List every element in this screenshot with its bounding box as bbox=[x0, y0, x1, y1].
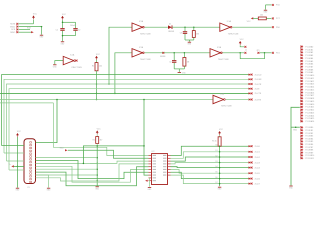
svg-text:P1.22/A22: P1.22/A22 bbox=[305, 109, 314, 112]
wire 25-D5 route bbox=[171, 170, 250, 174]
capacitor C3 bbox=[183, 31, 187, 34]
svg-text:C1: C1 bbox=[56, 29, 58, 31]
junction R5 bbox=[219, 156, 221, 158]
svg-text:VCC: VCC bbox=[62, 14, 67, 16]
pin PD0 bbox=[272, 26, 274, 28]
svg-text:R1: R1 bbox=[92, 66, 94, 68]
pin arrow bottom-left bbox=[11, 165, 14, 167]
svg-text:25-D1: 25-D1 bbox=[255, 152, 260, 154]
junction VCC stem bbox=[17, 166, 19, 168]
svg-text:P2.06/B6: P2.06/B6 bbox=[305, 144, 313, 146]
op-amp IC1E inverter bbox=[210, 46, 229, 61]
svg-text:VCC: VCC bbox=[97, 128, 102, 130]
pin x 25-D0 bbox=[251, 145, 253, 147]
wire VCC net riser bbox=[33, 20, 35, 24]
junction R1-W3 bbox=[96, 83, 98, 85]
wire R6 to link bbox=[183, 66, 185, 69]
pin x 25-D1 bbox=[251, 151, 253, 153]
pin arrow MISO bbox=[31, 31, 34, 33]
ground IC1F input bbox=[53, 65, 58, 69]
svg-text:25-D3: 25-D3 bbox=[255, 162, 260, 164]
junction R1-W6 bbox=[96, 99, 98, 101]
wire IC1E out to jumper bbox=[223, 52, 245, 54]
svg-text:VCC: VCC bbox=[219, 129, 224, 131]
connector SV1 pin 4 bbox=[16, 31, 18, 33]
svg-text:100nF: 100nF bbox=[70, 25, 76, 27]
svg-text:74HCT14N: 74HCT14N bbox=[140, 59, 151, 61]
pin x 25-D7 bbox=[251, 183, 253, 185]
svg-text:P1.00/A0: P1.00/A0 bbox=[305, 45, 313, 48]
wire RXD route bbox=[68, 150, 149, 158]
svg-text:V+: V+ bbox=[9, 164, 11, 166]
wire down to C4 bbox=[173, 53, 175, 60]
junction jumper bypass bbox=[239, 52, 241, 54]
wire V4 into X1 bbox=[9, 169, 24, 171]
wire VCC to jumper pin bbox=[240, 45, 244, 47]
svg-text:P2.03/B3: P2.03/B3 bbox=[305, 136, 313, 138]
junction R2 route A bbox=[96, 145, 98, 147]
svg-text:D6: D6 bbox=[215, 177, 217, 179]
capacitor C2 bbox=[73, 28, 77, 31]
pin 25-CTS bbox=[249, 92, 252, 94]
wire bus W6 left bbox=[0, 99, 213, 101]
pin 25-RI bbox=[249, 88, 252, 90]
wire C4 to link bbox=[173, 63, 175, 69]
ground under C4R6 bbox=[178, 72, 187, 74]
wire 25-D3 route bbox=[171, 163, 250, 164]
wire right vertical bbox=[291, 107, 300, 185]
svg-text:P2.08/B8: P2.08/B8 bbox=[305, 150, 313, 152]
wire X1 row3 to tie bbox=[36, 162, 98, 164]
wire bus W3 bbox=[7, 84, 250, 161]
svg-text:25-DSR: 25-DSR bbox=[255, 79, 262, 81]
junction IC1A input on bus W3 bbox=[108, 83, 110, 85]
wire to R4 bbox=[253, 17, 258, 19]
svg-text:GND: GND bbox=[293, 130, 298, 132]
pin x 25-DCD bbox=[251, 74, 253, 76]
wire link to gnd bbox=[178, 69, 180, 72]
svg-text:P1.26/A26: P1.26/A26 bbox=[305, 120, 314, 123]
svg-text:25-D6: 25-D6 bbox=[255, 178, 260, 180]
connector SV1 pin 1 bbox=[16, 23, 18, 25]
pin arrow IC2 bbox=[145, 180, 148, 182]
junction tie low bbox=[96, 180, 98, 182]
svg-text:10k: 10k bbox=[99, 66, 102, 68]
capacitor C1 bbox=[60, 28, 64, 31]
pin x 25-D4 bbox=[251, 167, 253, 169]
junction route A drop bbox=[143, 145, 145, 147]
VCC symbol bottom-left bbox=[16, 131, 21, 137]
svg-text:P1.23/A23: P1.23/A23 bbox=[305, 111, 314, 114]
pin 25-DSR bbox=[249, 78, 252, 80]
wire 25-D0 route bbox=[171, 146, 250, 155]
svg-text:MOSI: MOSI bbox=[10, 24, 15, 26]
wire to gnd PC6 bbox=[265, 5, 267, 10]
wire X1 row7 to tie bbox=[36, 174, 98, 176]
wire X1 to ground 2 bbox=[36, 175, 49, 188]
pin x 25-DTR bbox=[251, 83, 253, 85]
svg-text:25-D5: 25-D5 bbox=[255, 173, 260, 175]
wire to C2 bbox=[75, 22, 77, 28]
svg-text:P1.07/A7: P1.07/A7 bbox=[305, 65, 313, 68]
pin x 25-D2 bbox=[251, 156, 253, 158]
svg-text:P1.16/A16: P1.16/A16 bbox=[305, 91, 314, 94]
svg-text:74HCT14N: 74HCT14N bbox=[228, 33, 239, 35]
svg-text:P1.13/A13: P1.13/A13 bbox=[305, 83, 314, 86]
wire route L4 bbox=[36, 164, 149, 181]
pin PC7 bbox=[272, 17, 274, 19]
pin 25-DTR bbox=[249, 83, 252, 85]
wire down to R6 bbox=[183, 53, 185, 58]
svg-text:P1.08/A8: P1.08/A8 bbox=[305, 68, 313, 71]
wire C2 bottom bbox=[75, 31, 77, 36]
pin x 25-D6 bbox=[251, 178, 253, 180]
VCC symbol top-left bbox=[32, 13, 37, 19]
pin 25-D1 bbox=[249, 151, 252, 153]
svg-text:10k: 10k bbox=[260, 14, 263, 16]
svg-text:1N4148: 1N4148 bbox=[168, 31, 174, 33]
svg-text:D3: D3 bbox=[215, 161, 217, 163]
svg-text:R5 1k: R5 1k bbox=[212, 141, 217, 143]
VCC symbol jumper bbox=[239, 39, 244, 45]
svg-text:IC2: IC2 bbox=[152, 151, 155, 153]
ground IC2 bbox=[148, 187, 153, 191]
wire C2-C1 bottom link bbox=[63, 35, 76, 37]
wire VCC stem down bbox=[17, 137, 19, 188]
wire bus W7 bbox=[0, 102, 53, 104]
junction R6 tap bbox=[184, 52, 186, 54]
pin PC6 bbox=[272, 4, 274, 6]
junction tie bbox=[96, 174, 98, 176]
wire X1 row1 to tie bbox=[36, 157, 98, 159]
wire route L1 bbox=[36, 161, 149, 179]
svg-text:4k7: 4k7 bbox=[100, 140, 103, 142]
wire bus W1 bbox=[2, 75, 250, 146]
svg-text:PC6: PC6 bbox=[276, 5, 280, 7]
pin arrow RXD bbox=[65, 149, 68, 151]
junction W6 drop bbox=[143, 99, 145, 101]
wire bus W2 bbox=[4, 79, 249, 153]
svg-text:D1: D1 bbox=[215, 150, 217, 152]
pin x 25-CTS bbox=[251, 92, 253, 94]
pin arrow VCC feed bbox=[251, 17, 254, 19]
svg-text:P1.14/A14: P1.14/A14 bbox=[305, 86, 314, 89]
ground under RC bbox=[187, 42, 192, 46]
junction R5 bbox=[219, 178, 221, 180]
wire bus W5 bbox=[0, 92, 249, 94]
wire RC bottom link bbox=[185, 39, 194, 41]
connector pin column A bbox=[300, 45, 314, 123]
resistor R5 bbox=[218, 137, 221, 146]
svg-text:VCC: VCC bbox=[17, 131, 22, 133]
connector SV1 pin 3 bbox=[16, 28, 18, 30]
svg-text:JP1: JP1 bbox=[256, 50, 259, 52]
pin 25-DCD bbox=[249, 74, 252, 76]
op-amp IC1D inverter bbox=[213, 93, 232, 108]
pin TP1 bbox=[162, 52, 164, 54]
junction R5 bbox=[219, 172, 221, 174]
wire MISO bbox=[18, 31, 31, 33]
pin 25-D0 bbox=[249, 145, 252, 147]
svg-text:MISO: MISO bbox=[10, 32, 15, 34]
svg-text:25-CTS: 25-CTS bbox=[255, 93, 262, 95]
wire branch B2 to IC2 pin1 bbox=[53, 103, 148, 156]
svg-text:VCC: VCC bbox=[240, 39, 245, 41]
svg-text:P1.05/A5: P1.05/A5 bbox=[305, 60, 313, 63]
svg-text:D5: D5 bbox=[215, 172, 217, 174]
svg-text:PD0: PD0 bbox=[276, 27, 280, 29]
svg-text:P2.01/B1: P2.01/B1 bbox=[305, 130, 313, 132]
wire jumper bypass U bbox=[240, 53, 264, 59]
svg-text:P2.02/B2: P2.02/B2 bbox=[305, 133, 313, 135]
junction R5 bbox=[219, 167, 221, 169]
wire RC to ground bbox=[188, 40, 190, 42]
wire arrow to X1 bbox=[14, 165, 24, 167]
svg-text:P1.21/A21: P1.21/A21 bbox=[305, 106, 314, 109]
svg-text:J1: J1 bbox=[245, 50, 247, 52]
pin JP1-2 bbox=[257, 52, 259, 54]
wire X1 row5 to tie bbox=[36, 168, 98, 170]
IC IC2 pins bbox=[149, 155, 171, 181]
junction R5 bbox=[219, 183, 221, 185]
svg-text:P1.12/A12: P1.12/A12 bbox=[305, 80, 314, 83]
pin 25-RTS bbox=[249, 98, 252, 100]
connector X1 body bbox=[24, 139, 36, 184]
svg-text:D0: D0 bbox=[215, 145, 217, 147]
junction tie bbox=[96, 168, 98, 170]
wire R5 down bbox=[219, 146, 221, 186]
svg-text:P1.25/A25: P1.25/A25 bbox=[305, 117, 314, 120]
pin 25-D2 bbox=[249, 156, 252, 158]
pin x 25-DSR bbox=[251, 78, 253, 80]
wire C1-C2 top link bbox=[63, 21, 76, 23]
svg-text:D7: D7 bbox=[215, 182, 217, 184]
wire VCC to R1 bbox=[96, 60, 98, 63]
svg-text:GND2: GND2 bbox=[10, 26, 15, 28]
junction tie bbox=[96, 157, 98, 159]
wire bus W5 to IC1B input bbox=[115, 53, 132, 94]
connector pin column B bbox=[300, 126, 314, 160]
resistor R1 bbox=[95, 63, 98, 71]
junction bypass right bbox=[264, 52, 266, 54]
pin x 25-D3 bbox=[251, 162, 253, 164]
op-amp IC1B inverter bbox=[132, 46, 151, 61]
wire W6 drop to IC2 pin8 bbox=[144, 100, 149, 176]
connector SV1 pin 2 bbox=[16, 26, 18, 28]
svg-text:D4: D4 bbox=[215, 166, 217, 168]
pin PD1 bbox=[272, 52, 274, 54]
wire IC1D out bbox=[226, 99, 249, 101]
svg-text:P2.04/B4: P2.04/B4 bbox=[305, 138, 313, 140]
wire C3 to link bbox=[184, 34, 186, 40]
svg-text:VCC: VCC bbox=[33, 13, 38, 15]
pin JP1-1 bbox=[244, 52, 246, 54]
svg-text:P2.00/B0: P2.00/B0 bbox=[305, 127, 313, 129]
junction route A bbox=[83, 163, 85, 165]
junction R1-W5 bbox=[96, 93, 98, 95]
wire right branch bbox=[291, 126, 300, 128]
wire bus W4 bbox=[9, 89, 249, 170]
ground under C1 bbox=[61, 42, 66, 46]
op-amp IC1A inverter bbox=[132, 20, 151, 35]
VCC symbol above R2 bbox=[96, 128, 101, 134]
wire R3 to link bbox=[193, 37, 195, 40]
wire jumper to pin bbox=[260, 52, 272, 54]
wire route L3 bbox=[36, 167, 149, 186]
wire route mid bbox=[90, 161, 149, 163]
junction right branch bbox=[295, 126, 297, 128]
svg-text:1M: 1M bbox=[196, 34, 199, 36]
wire R4 to pin bbox=[266, 17, 271, 19]
wire IC1C out long bbox=[233, 26, 272, 28]
wire 25-D7 route bbox=[171, 175, 250, 184]
junction R5 bbox=[219, 145, 221, 147]
svg-text:P1.15/A15: P1.15/A15 bbox=[305, 88, 314, 91]
junction IC1B input on bus W5 bbox=[114, 93, 116, 95]
op-amp IC1C inverter bbox=[220, 20, 239, 35]
wire V1 into X1 bbox=[2, 145, 25, 147]
pin 25-D4 bbox=[249, 167, 252, 169]
svg-text:P2.11/B11: P2.11/B11 bbox=[305, 158, 314, 160]
wire VCC to R5 bbox=[219, 135, 221, 137]
svg-text:25-RI: 25-RI bbox=[255, 89, 260, 91]
pin JP1-3 bbox=[244, 46, 246, 48]
svg-text:74HCT14N: 74HCT14N bbox=[71, 67, 82, 69]
svg-text:VCC: VCC bbox=[247, 21, 252, 23]
svg-text:P1.02/A2: P1.02/A2 bbox=[305, 51, 313, 54]
svg-text:74HCT14N: 74HCT14N bbox=[140, 33, 151, 35]
wire route A bbox=[83, 146, 144, 164]
capacitor C4 bbox=[172, 60, 176, 63]
wire branch B1 to connector bbox=[36, 100, 57, 143]
IC IC2 body bbox=[152, 154, 168, 185]
wire tie line bbox=[96, 146, 98, 186]
svg-text:P1.03/A3: P1.03/A3 bbox=[305, 54, 313, 57]
junction R5 bbox=[219, 151, 221, 153]
resistor R2 bbox=[96, 137, 99, 144]
pin x 25-RTS bbox=[251, 99, 253, 101]
wire VCC net bbox=[18, 23, 33, 25]
wire 25-D1 route bbox=[171, 152, 250, 159]
svg-text:P1.18/A18: P1.18/A18 bbox=[305, 97, 314, 100]
VCC symbol above R5 bbox=[218, 129, 223, 135]
svg-text:SENSE: SENSE bbox=[160, 56, 165, 58]
VCC symbol above R1 bbox=[95, 54, 100, 60]
wire IC1B out to IC1E bbox=[145, 52, 210, 54]
wire VCC to C1 bbox=[62, 20, 64, 28]
svg-text:P1.20/A20: P1.20/A20 bbox=[305, 103, 314, 106]
junction C4 tap bbox=[173, 52, 175, 54]
junction B1 on W6 bbox=[56, 99, 58, 101]
svg-text:P1.09/A9: P1.09/A9 bbox=[305, 71, 313, 74]
resistor R3 bbox=[192, 31, 195, 38]
wire IC1A out to D1 bbox=[145, 26, 168, 28]
wire C4R6 link bbox=[174, 68, 184, 70]
svg-text:P1.24/A24: P1.24/A24 bbox=[305, 114, 314, 117]
wire to ground bbox=[41, 27, 43, 35]
wire 25-D6 route bbox=[171, 172, 250, 178]
wire C1 to gnd bbox=[62, 31, 64, 41]
svg-text:PC7: PC7 bbox=[276, 18, 280, 20]
wire VCC to R2 bbox=[96, 134, 98, 136]
VCC symbol above C1 bbox=[61, 14, 66, 20]
wire R1 down bbox=[96, 71, 98, 100]
wire D1 to IC1C bbox=[172, 26, 219, 28]
svg-text:25-DTR: 25-DTR bbox=[255, 84, 262, 86]
ground bottom-left 2 bbox=[47, 188, 52, 192]
wire stub bbox=[35, 142, 38, 144]
svg-text:74HCT14N: 74HCT14N bbox=[221, 106, 232, 108]
pin x 25-RI bbox=[251, 88, 253, 90]
svg-text:P1.11/A11: P1.11/A11 bbox=[305, 77, 314, 80]
wire SCK bbox=[18, 28, 30, 30]
svg-text:P1.17/A17: P1.17/A17 bbox=[305, 94, 314, 97]
svg-text:25-DCD: 25-DCD bbox=[255, 74, 262, 76]
svg-text:25-D0: 25-D0 bbox=[255, 146, 260, 148]
svg-text:P1.04/A4: P1.04/A4 bbox=[305, 57, 313, 60]
pin IC1F out bbox=[76, 60, 78, 62]
svg-text:25-D2: 25-D2 bbox=[255, 157, 260, 159]
wire route L2 bbox=[36, 166, 149, 182]
ground R5 line bbox=[218, 187, 223, 191]
svg-text:P2.10/B10: P2.10/B10 bbox=[305, 155, 314, 157]
junction C link bottom bbox=[62, 35, 64, 37]
junction C3 tap bbox=[184, 26, 186, 28]
ground bottom-left 1 bbox=[16, 188, 21, 192]
svg-text:P1.19/A19: P1.19/A19 bbox=[305, 100, 314, 103]
svg-text:PD1: PD1 bbox=[276, 53, 280, 55]
op-amp IC1F inverter bbox=[63, 54, 82, 69]
ground top-right bbox=[264, 10, 269, 14]
svg-text:C4: C4 bbox=[169, 62, 171, 64]
pin 25-D3 bbox=[249, 161, 252, 163]
svg-text:C3: C3 bbox=[180, 32, 182, 34]
wire PC6 stub bbox=[266, 4, 272, 6]
svg-text:P2.07/B7: P2.07/B7 bbox=[305, 147, 313, 149]
svg-text:P1.06/A6: P1.06/A6 bbox=[305, 63, 313, 66]
pin 25-D7 bbox=[249, 183, 252, 185]
resistor R6 bbox=[183, 58, 186, 67]
svg-text:25-RTS: 25-RTS bbox=[255, 99, 262, 101]
svg-text:P2.05/B5: P2.05/B5 bbox=[305, 141, 313, 143]
svg-text:VCC: VCC bbox=[96, 54, 101, 56]
ground tie line bbox=[95, 187, 100, 191]
resistor R4 bbox=[258, 17, 266, 20]
wire 25-D4 route bbox=[171, 166, 250, 169]
junction R5 bbox=[219, 162, 221, 164]
svg-text:P2.09/B9: P2.09/B9 bbox=[305, 152, 313, 154]
ground right vertical bbox=[289, 186, 294, 190]
wire IC2 pin to gnd bbox=[149, 178, 151, 187]
svg-text:P1.10/A10: P1.10/A10 bbox=[305, 74, 314, 77]
wire V2 into X1 bbox=[4, 152, 24, 154]
svg-text:74HCT14N: 74HCT14N bbox=[218, 59, 229, 61]
pin x 25-D5 bbox=[251, 172, 253, 174]
wire down to R3 bbox=[193, 27, 195, 30]
junction tie bbox=[96, 163, 98, 165]
svg-text:R2: R2 bbox=[93, 140, 95, 142]
svg-text:25-D7: 25-D7 bbox=[255, 183, 260, 185]
junction C link top bbox=[62, 22, 64, 24]
wire gnd to IC1F input bbox=[55, 61, 63, 65]
wire bus W3 to IC1A input bbox=[109, 27, 132, 84]
svg-text:D1: D1 bbox=[169, 24, 171, 26]
connector X1 pins bbox=[30, 142, 32, 183]
wire down to C3 bbox=[184, 27, 186, 31]
ground top-left bbox=[40, 35, 45, 39]
wire GND net bbox=[18, 26, 41, 28]
junction bbox=[41, 26, 43, 28]
